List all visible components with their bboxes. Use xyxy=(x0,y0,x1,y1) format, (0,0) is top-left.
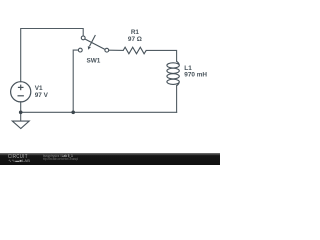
wire ground stub xyxy=(20,112,22,121)
SW1 blade xyxy=(85,39,105,49)
V1 body circle xyxy=(11,82,31,102)
inductor L1 xyxy=(167,61,179,85)
SW1 terminal pin 3 (common) xyxy=(105,48,109,52)
CircuitLab logo word CIRCUIT xyxy=(8,155,28,159)
L1 coil turn 4 xyxy=(167,79,179,84)
SW1 terminal pin 1 (top throw) xyxy=(81,36,85,40)
wire top rail xyxy=(21,29,83,82)
svg-text:97 V: 97 V xyxy=(35,92,49,99)
node junction at V1 bottom xyxy=(19,111,23,115)
label R1 97 ohm xyxy=(128,29,142,43)
wire bottom rail xyxy=(21,102,177,113)
footer bar xyxy=(0,153,220,166)
footer caption line 2 xyxy=(43,158,78,161)
switch SW1 xyxy=(78,35,108,52)
V1 plus sign xyxy=(20,85,22,91)
svg-text:97 Ω: 97 Ω xyxy=(128,36,142,43)
wire switch common to resistor xyxy=(109,49,123,51)
svg-text:970 mH: 970 mH xyxy=(184,72,207,79)
L1 coil turn 2 xyxy=(167,68,179,73)
L1 coil turn 3 xyxy=(167,74,179,79)
L1 top lead xyxy=(177,61,180,65)
SW1 actuation arrow xyxy=(90,35,96,46)
wire resistor to inductor top xyxy=(146,50,176,61)
L1 coil turn 1 xyxy=(167,63,179,68)
label L1 970 mH xyxy=(184,65,207,79)
ground xyxy=(12,121,29,128)
CircuitLab logo word LAB with symbols xyxy=(8,159,30,162)
wire inductor bottom xyxy=(176,86,178,113)
node junction at middle vertical xyxy=(71,111,75,115)
SW1 terminal pin 2 (left throw) xyxy=(78,48,82,52)
voltage source V1 xyxy=(11,82,31,102)
footer caption line 1 xyxy=(43,155,73,159)
V1 minus sign xyxy=(18,95,24,97)
label V1 97 V xyxy=(35,85,49,99)
L1 bottom lead xyxy=(177,82,180,85)
svg-text:SW1: SW1 xyxy=(87,58,101,65)
wire switch left throw to bottom rail xyxy=(73,50,78,112)
resistor R1 xyxy=(123,47,146,54)
